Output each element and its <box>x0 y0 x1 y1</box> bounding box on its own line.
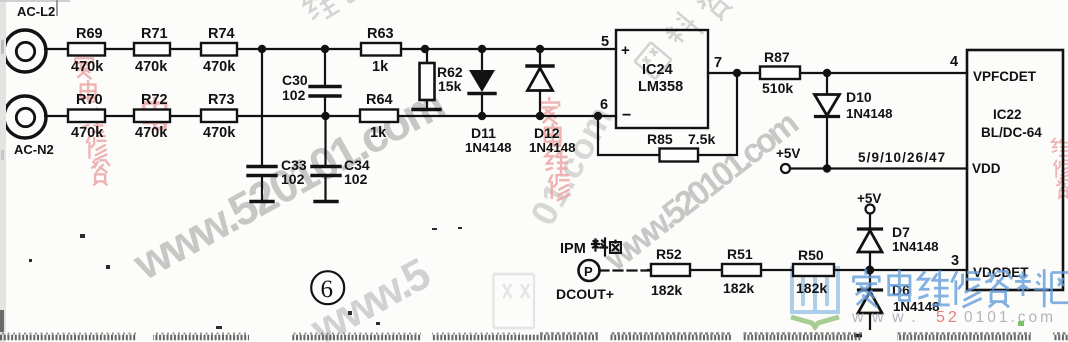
resistor R69 <box>68 43 105 56</box>
svg-text:R63: R63 <box>367 26 394 42</box>
svg-text:+5V: +5V <box>776 146 800 161</box>
svg-text:470k: 470k <box>135 59 168 75</box>
svg-text:5: 5 <box>601 34 609 50</box>
wire feedback loop <box>598 73 737 155</box>
node row2 C30/C34 tap <box>321 112 329 120</box>
capacitor C34 <box>312 116 340 200</box>
diode D6 <box>869 274 871 289</box>
svg-text:470k: 470k <box>135 125 168 141</box>
pin 7 wire <box>708 72 967 74</box>
wire row2 AC-N2 to IC24 pin6 <box>45 115 616 117</box>
svg-text:R73: R73 <box>208 92 235 108</box>
svg-text:BL/DC-64: BL/DC-64 <box>981 125 1042 140</box>
diode D11 <box>481 49 483 70</box>
capacitor C30 <box>310 49 340 116</box>
svg-text:VDD: VDD <box>972 161 1001 176</box>
ground R62 <box>413 108 440 111</box>
node row1 D12 tap <box>536 45 544 53</box>
diode D7 <box>869 214 871 229</box>
page number 6 circled <box>311 271 344 304</box>
svg-text:470k: 470k <box>203 59 236 75</box>
svg-text:182k: 182k <box>723 280 754 296</box>
svg-text:AC-N2: AC-N2 <box>14 142 54 157</box>
svg-text:182k: 182k <box>796 280 827 296</box>
resistor R52 <box>651 264 690 276</box>
svg-text:P: P <box>584 264 593 279</box>
svg-text:R50: R50 <box>798 247 824 263</box>
capacitor C33 <box>248 49 276 200</box>
svg-text:IC24: IC24 <box>642 62 673 78</box>
svg-text:182k: 182k <box>651 282 682 298</box>
svg-text:1N4148: 1N4148 <box>846 106 893 121</box>
node row1 D11 tap <box>478 45 486 53</box>
node D10 bottom tap <box>823 164 831 172</box>
svg-text:D11: D11 <box>471 125 496 141</box>
svg-text:C30: C30 <box>282 72 308 88</box>
svg-text:+5V: +5V <box>857 191 881 206</box>
svg-text:52: 52 <box>936 309 960 326</box>
svg-text:1N4148: 1N4148 <box>465 140 512 155</box>
svg-text:0101.com: 0101.com <box>964 309 1056 326</box>
resistor R51 <box>722 264 761 276</box>
svg-text:VPFCDET: VPFCDET <box>973 69 1037 84</box>
svg-text:6: 6 <box>600 97 608 113</box>
connector AC-L2 <box>4 30 46 72</box>
svg-text:R52: R52 <box>656 246 682 262</box>
node row2 D11 tap <box>478 112 486 120</box>
wire row1 AC-L2 to IC24 pin5 <box>45 48 616 50</box>
diode D12 <box>527 64 553 67</box>
node pin7 feedback junction <box>733 69 741 77</box>
+5V terminal D7 <box>866 205 875 214</box>
+5V terminal VDD <box>781 164 790 173</box>
ground D6 <box>856 334 889 338</box>
IC IC22 <box>967 50 1063 290</box>
node row1 R62 tap <box>421 45 429 53</box>
ground C33 <box>251 200 273 203</box>
svg-text:R64: R64 <box>366 92 393 108</box>
node row1 C33 tap <box>258 45 266 53</box>
resistor R63 <box>361 43 401 56</box>
svg-text:7.5k: 7.5k <box>688 131 715 147</box>
resistor R62 vertical <box>426 49 428 63</box>
svg-text:102: 102 <box>344 171 368 187</box>
wire bottom row <box>648 269 967 271</box>
svg-text:R87: R87 <box>764 49 790 65</box>
svg-text:5/9/10/26/47: 5/9/10/26/47 <box>858 150 946 165</box>
node D10 top tap <box>823 69 831 77</box>
node D6/D7 tap <box>865 266 874 275</box>
connector AC-N2 <box>4 96 46 138</box>
svg-text:7: 7 <box>714 55 722 71</box>
svg-text:DCOUT+: DCOUT+ <box>556 286 614 302</box>
svg-text:1k: 1k <box>372 59 389 75</box>
svg-text:3: 3 <box>951 253 959 269</box>
resistor R87 <box>760 67 800 80</box>
svg-text:R74: R74 <box>208 26 235 42</box>
svg-text:6: 6 <box>321 276 334 303</box>
svg-text:AC-L2: AC-L2 <box>17 4 55 19</box>
node row1 C30 tap <box>321 45 329 53</box>
svg-text:IC22: IC22 <box>993 107 1022 122</box>
resistor R85 <box>660 149 699 162</box>
resistor R74 <box>201 43 237 56</box>
resistor R73 <box>201 110 237 123</box>
svg-text:R70: R70 <box>76 92 103 108</box>
svg-text:D10: D10 <box>846 89 872 105</box>
svg-text:470k: 470k <box>71 125 104 141</box>
wire VDD line <box>790 167 967 169</box>
svg-text:4: 4 <box>950 54 958 70</box>
svg-text:R69: R69 <box>76 26 103 42</box>
WATERMARKS-OVER <box>851 269 1068 326</box>
wire P to R52 dashed-look <box>600 269 652 271</box>
svg-text:R72: R72 <box>141 92 168 108</box>
svg-text:R51: R51 <box>727 246 753 262</box>
svg-text:IPM: IPM <box>560 241 586 257</box>
svg-text:1N4148: 1N4148 <box>529 140 576 155</box>
resistor R70 <box>68 110 105 123</box>
terminal P IPM <box>579 260 600 281</box>
node row2 feedback tap <box>594 112 602 120</box>
svg-text:15k: 15k <box>438 78 462 94</box>
node row2 D12 tap <box>536 112 544 120</box>
diode D10 <box>826 73 828 94</box>
svg-text:1k: 1k <box>370 125 387 141</box>
svg-text:D12: D12 <box>534 125 560 141</box>
svg-text:510k: 510k <box>762 80 793 96</box>
svg-text:R71: R71 <box>141 26 168 42</box>
svg-text:R85: R85 <box>647 131 673 147</box>
svg-text:www.: www. <box>851 309 924 326</box>
resistor R71 <box>134 43 170 56</box>
resistor R64 <box>360 110 398 123</box>
svg-text:D7: D7 <box>892 224 910 240</box>
op-amp IC24 <box>616 30 708 128</box>
resistor R50 <box>793 264 834 276</box>
ground C34 <box>315 200 337 203</box>
svg-text:102: 102 <box>281 171 305 187</box>
svg-text:1N4148: 1N4148 <box>892 239 939 254</box>
svg-text:LM358: LM358 <box>638 79 683 95</box>
resistor R72 <box>134 110 170 123</box>
svg-text:−: − <box>622 107 631 124</box>
svg-text:+: + <box>621 42 630 59</box>
svg-text:102: 102 <box>282 87 306 103</box>
svg-text:470k: 470k <box>71 59 104 75</box>
svg-text:470k: 470k <box>203 125 236 141</box>
